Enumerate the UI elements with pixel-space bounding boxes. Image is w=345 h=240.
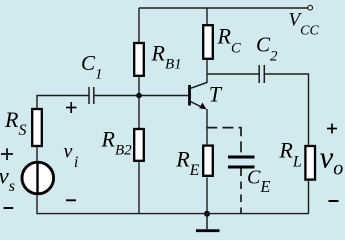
plus vi [66, 102, 77, 113]
wire bottom rail [37, 213, 309, 215]
wire RS to source [36, 146, 38, 163]
minus vi [66, 199, 76, 201]
ground [196, 214, 220, 231]
resistor RB2 [134, 129, 144, 161]
wire source to bottom rail [36, 194, 38, 215]
wire dashed emitter to CE [206, 128, 241, 155]
wire RB1 top lead [138, 8, 140, 42]
capacitor C1 [89, 87, 94, 104]
source vs [22, 162, 54, 194]
plus vo [327, 124, 337, 134]
resistor RS [32, 109, 42, 146]
wire from input corner to C1 [37, 96, 89, 109]
wire collector node to C2 [207, 73, 259, 75]
wire C2 to RL [264, 74, 308, 145]
junction node E ground [204, 211, 210, 217]
wire RB2 top lead [138, 96, 140, 129]
resistor RL [305, 146, 315, 180]
junction node B [136, 93, 142, 99]
wire emitter to RE [206, 109, 208, 145]
wire RC top lead [206, 8, 208, 24]
wire base wire C1 to transistor [94, 95, 189, 97]
wire RB2 bottom lead [138, 162, 140, 214]
power terminal VCC [308, 5, 313, 10]
wire top rail [139, 7, 308, 9]
plus vs [1, 148, 13, 160]
minus vo [329, 200, 339, 202]
wire RC bottom to collector node [206, 60, 208, 83]
capacitor C2 [259, 65, 264, 83]
wire dashed CE to bottom rail [240, 169, 242, 215]
transistor T [190, 83, 207, 110]
resistor RC [203, 25, 213, 59]
capacitor CE [228, 157, 255, 167]
minus vs [4, 207, 14, 209]
wire RL bottom lead [308, 181, 310, 214]
svg-text:T: T [209, 81, 223, 106]
resistor RE [203, 146, 213, 176]
wire RE bottom lead [206, 178, 208, 215]
resistor RB1 [134, 43, 144, 76]
wire RB1 bottom lead [138, 77, 140, 96]
